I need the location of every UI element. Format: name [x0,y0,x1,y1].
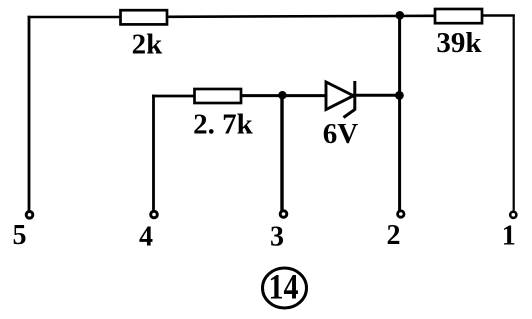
zener diode 6V anode triangle [326,82,354,110]
wire vertical node 2 [398,15,401,211]
figure number circle [263,268,307,308]
junction dot node 3 [278,91,286,99]
resistor 39k [435,9,482,23]
svg-text:39k: 39k [436,27,482,59]
svg-text:2k: 2k [132,29,164,61]
wire vertical to terminal 4 [152,95,155,211]
svg-text:5: 5 [13,220,27,251]
wire right vertical to terminal 1 [513,15,515,211]
terminal 3 circle [280,211,287,218]
svg-text:14: 14 [269,267,299,307]
svg-text:3: 3 [270,222,284,253]
wire top-right horizontal [480,14,515,17]
wire vertical to terminal 3 [280,95,283,211]
junction dot node 2 middle [395,91,404,100]
terminal 1 circle [510,212,516,218]
resistor 2.7k [195,89,242,103]
svg-text:6V: 6V [323,118,359,150]
resistor 2k [121,10,168,24]
wire middle horizontal left [152,95,196,98]
svg-text:4: 4 [139,222,153,253]
wire top-left horizontal [28,16,123,19]
terminal 5 circle [26,212,33,219]
zener diode 6V cathode bar [344,81,355,118]
svg-text:1: 1 [502,221,516,252]
wire middle horizontal right [353,94,401,97]
terminal 4 circle [151,211,158,218]
junction dot top node 2 [396,11,405,20]
wire middle horizontal center [240,94,327,97]
terminal 2 circle [398,211,404,217]
wire left vertical to terminal 5 [28,16,31,211]
svg-text:2: 2 [387,220,401,251]
wire top horizontal middle [165,15,436,19]
svg-text:2. 7k: 2. 7k [193,109,254,141]
